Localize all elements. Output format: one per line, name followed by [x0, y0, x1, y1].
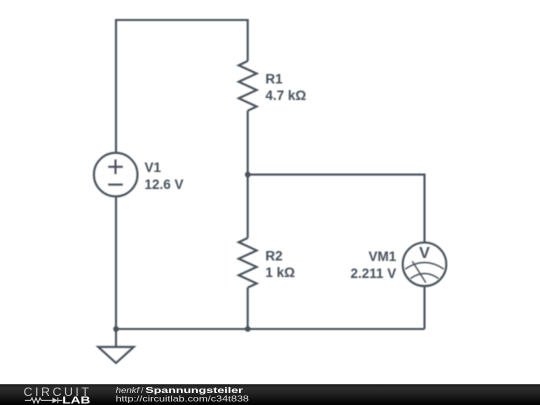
svg-text:1 kΩ: 1 kΩ	[265, 265, 295, 280]
svg-text:R2: R2	[265, 249, 282, 264]
junction dot ground node	[113, 326, 119, 332]
wire voltmeter bottom to bottom rail	[423, 286, 425, 329]
wire node to voltmeter top	[248, 175, 425, 243]
wire V1 bottom to ground node	[115, 196, 117, 329]
wire V1 top to top-left corner to R1 top	[116, 20, 248, 153]
node A divider output junction	[245, 172, 251, 178]
ground	[98, 347, 134, 363]
svg-text:2.211 V: 2.211 V	[351, 266, 397, 281]
svg-text:V1: V1	[145, 160, 162, 175]
wire ground stub	[115, 329, 117, 347]
junction dot R2 bottom rail	[245, 326, 251, 332]
svg-text:4.7 kΩ: 4.7 kΩ	[265, 88, 306, 103]
svg-text:VM1: VM1	[369, 249, 397, 264]
wire R1 bottom to R2 top	[247, 111, 249, 238]
svg-text:LAB: LAB	[62, 395, 90, 405]
resistor R1	[239, 61, 257, 111]
svg-text:V: V	[419, 245, 430, 262]
voltage source V1	[94, 153, 138, 197]
svg-text:http://circuitlab.com/c34t838: http://circuitlab.com/c34t838	[116, 394, 250, 404]
logo resistor-diode glyph	[25, 398, 62, 404]
svg-text:12.6 V: 12.6 V	[145, 177, 184, 192]
voltmeter VM1	[403, 242, 447, 286]
wire R2 bottom to bottom rail	[247, 288, 249, 329]
svg-text:R1: R1	[265, 72, 283, 87]
wire bottom rail	[116, 328, 425, 330]
footer bar	[0, 384, 540, 405]
resistor R2	[239, 238, 257, 288]
